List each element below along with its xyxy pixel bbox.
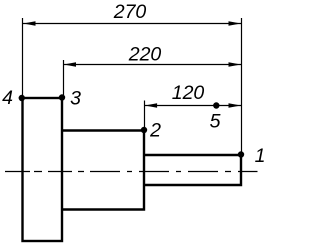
arrowhead 270 right: [229, 21, 241, 26]
arrowhead 270 left: [23, 21, 35, 26]
dimension line 270: [23, 23, 241, 25]
arrowhead 120 right: [229, 103, 241, 108]
svg-text:220: 220: [128, 44, 162, 66]
dimension line 120: [145, 105, 241, 107]
arrowhead 220 right: [229, 62, 241, 67]
svg-text:3: 3: [70, 87, 81, 109]
extension line left of dim 120 (to point 2): [144, 101, 146, 129]
node point 2: [141, 127, 147, 133]
node point 1: [238, 151, 244, 157]
extension line right (shared by dims, to point 1): [241, 18, 243, 153]
svg-text:120: 120: [172, 82, 205, 104]
shaft small step outline (point 1): [144, 155, 241, 185]
svg-text:1: 1: [255, 145, 266, 167]
extension line left of dim 220 (to point 3): [63, 60, 65, 95]
svg-text:270: 270: [113, 1, 147, 23]
centerline (dash-dot axis): [5, 171, 258, 173]
extension line left of dim 270: [22, 18, 24, 96]
svg-text:2: 2: [149, 120, 161, 142]
arrowhead 120 left: [145, 103, 157, 108]
node point 3: [59, 94, 65, 100]
svg-text:5: 5: [210, 110, 221, 132]
arrowhead 220 left: [64, 62, 76, 67]
shaft flange outline (left large step, points 3-4): [23, 98, 63, 241]
shaft middle step outline (point 2): [62, 131, 144, 210]
dimension line 220: [64, 64, 241, 66]
svg-text:4: 4: [2, 87, 13, 109]
node point 5: [213, 102, 219, 108]
node point 4: [19, 95, 25, 101]
